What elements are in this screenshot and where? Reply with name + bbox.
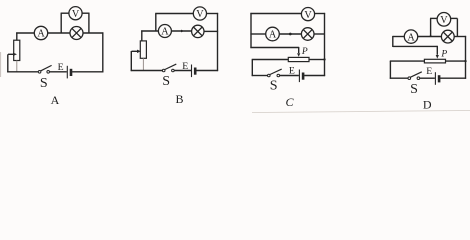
faint scan line at left edge [0,52,2,77]
battery E long plate (+) [191,65,193,78]
wire: ammeter to lamp [418,36,442,38]
voltmeter (V) circle [193,7,206,20]
ammeter (A) circle [158,25,171,38]
svg-text:P: P [301,47,308,57]
wire: rheostat right terminal [446,60,466,62]
wire: lower left vertical [251,60,253,77]
wire: bottom left segment to switch [131,70,163,72]
node: voltmeter left tap junction [60,32,62,34]
voltmeter (V) circle [301,8,314,21]
wire: ammeter to lamp [171,30,191,32]
wire: C left vertical (top rows) [250,13,252,48]
node: voltmeter left tap junction [430,35,432,37]
wire: voltmeter branch left vertical [430,18,432,36]
wire: voltmeter branch top right [207,13,219,15]
wire: rheostat top feed [16,32,18,40]
battery E long plate (+) [298,70,300,83]
wire: right side vertical [102,32,104,72]
wire: switch to battery [50,71,67,73]
wire: lamp to right vertical [314,33,325,35]
wire: bottom left segment to switch [390,77,408,79]
wire: battery to bottom right corner [304,75,325,77]
svg-text:A: A [37,29,45,40]
ammeter (A) circle [404,30,417,43]
voltmeter (V) circle [437,12,451,26]
lamp circle [192,25,204,37]
junction dot on wire [289,33,292,36]
svg-text:A: A [161,27,169,38]
lamp circle [441,30,454,43]
wire: switch to battery [174,70,191,72]
wire: right side vertical [324,13,326,76]
rheostat wiper arrow (down) [298,47,300,53]
wire: lamp to right vertical [204,30,218,32]
wire: ammeter to lamp [48,32,70,34]
lamp cross [443,32,452,41]
wire: B top-left corner to ammeter [141,30,158,32]
lamp cross [303,30,312,39]
resistor: rheostat body (slide rheostat) [140,41,146,58]
resistor: rheostat body (slide rheostat) [14,40,20,60]
battery E long plate (+) [66,66,68,79]
svg-text:B: B [175,92,183,106]
wire: voltmeter branch top left [430,17,437,19]
wire: rheostat left terminal [390,60,425,62]
resistor: rheostat body (horizontal) [288,57,309,61]
lamp circle [70,27,83,40]
battery E short thick plate (-) [438,75,441,82]
wire: A top-left corner to ammeter [16,32,34,34]
wire: rheostat bottom feed (faint) [16,61,18,72]
switch S blade (open) [41,65,52,70]
switch S blade (open) [270,69,282,74]
resistor: rheostat body (horizontal) [424,59,445,63]
battery E short thick plate (-) [302,73,305,80]
svg-text:S: S [410,82,418,97]
svg-text:S: S [270,78,278,93]
wire: voltmeter branch right vertical [88,13,90,33]
wire: right side vertical [217,13,219,71]
svg-text:V: V [304,10,312,21]
svg-text:V: V [196,9,204,20]
wire: lower left vertical [389,61,391,79]
wire: rheostat bottom feed (faint) [142,58,144,70]
wire: voltmeter branch top right [451,17,458,19]
battery E short thick plate (-) [194,68,197,75]
wire: switch to battery [420,77,435,79]
switch S pivot circle right [47,71,50,74]
svg-text:C: C [285,95,294,109]
svg-text:A: A [51,93,60,107]
battery E long plate (+) [434,72,436,85]
svg-text:A: A [407,32,415,43]
wire: voltmeter branch left vertical [60,13,62,33]
svg-text:S: S [40,76,48,91]
svg-text:P: P [440,50,447,60]
wire: wiper feed horizontal [250,47,298,49]
wire: switch to battery [280,75,299,77]
wire: voltmeter branch right vertical [456,18,458,36]
lamp cross [193,27,202,36]
wire: right side vertical [465,36,467,79]
svg-text:E: E [426,66,432,77]
wire: ammeter to lamp [279,33,301,35]
faint scan line bottom right [252,110,470,112]
wire: wiper feed horizontal [393,45,438,47]
wire: top row to voltmeter [250,13,301,15]
node: junction dot right of rheostat [323,58,325,60]
wire: voltmeter to right corner [315,13,326,15]
wire: battery to bottom right corner [440,77,466,79]
wire: lamp to right corner [83,32,103,34]
switch S pivot circle left [268,74,271,77]
wire: left vertical from wiper [7,54,9,72]
svg-text:V: V [72,9,80,20]
wire: ammeter row left [250,33,265,35]
wire: left vertical from wiper [130,51,132,71]
wire: rheostat left terminal [252,59,289,61]
svg-text:V: V [440,15,448,26]
switch S pivot circle left [408,77,411,80]
rheostat wiper arrow [8,53,13,55]
node: voltmeter left tap junction [155,14,157,32]
wire: battery to bottom right corner [72,71,103,73]
svg-text:E: E [182,61,188,72]
svg-text:E: E [58,62,64,73]
wire: rheostat right terminal [309,59,325,61]
switch S pivot circle right [417,77,420,80]
switch S blade (open) [165,64,176,69]
wire: left vertical to wiper jog [392,36,394,47]
ammeter (A) circle [34,26,47,39]
battery E short thick plate (-) [70,69,73,76]
rheostat wiper arrow (down) [436,46,438,55]
switch S pivot circle left [162,69,165,72]
junction arrow on wire [181,30,184,33]
wire: voltmeter branch top left [155,13,193,15]
wire: voltmeter branch top left [61,12,69,14]
ammeter (A) circle [266,27,280,41]
svg-text:A: A [269,30,277,41]
wire: bottom left segment to switch [252,75,268,77]
svg-text:S: S [162,74,170,89]
wire: lamp to right vertical [454,36,466,38]
switch S blade (open) [411,72,422,77]
wire: voltmeter branch top right [82,12,89,14]
switch S pivot circle left [38,71,41,74]
node: junction dot right of rheostat [464,60,466,62]
lamp circle [301,28,314,41]
lamp cross [72,28,81,37]
rheostat wiper arrow [132,50,138,52]
wire: rheostat top feed [141,30,143,41]
svg-text:D: D [423,97,432,111]
wire: D lamp-row left corner [393,36,405,38]
switch S pivot circle right [277,74,280,77]
svg-text:E: E [289,66,295,77]
switch S pivot circle right [172,69,175,72]
wire: battery to bottom right corner [196,70,218,72]
voltmeter (V) circle [69,7,82,20]
wire: bottom left segment to switch [7,71,38,73]
